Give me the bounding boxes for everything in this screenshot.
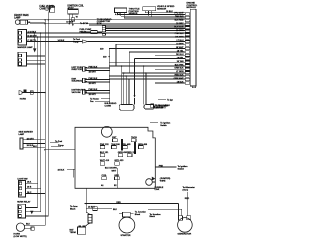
svg-text:18 B: 18 B	[27, 187, 32, 189]
svg-text:RED: RED	[185, 198, 190, 200]
svg-text:18 BLK: 18 BLK	[177, 82, 184, 84]
svg-text:439: 439	[100, 48, 104, 50]
svg-text:LT BLU: LT BLU	[177, 40, 184, 42]
svg-text:MARKER LAMP: MARKER LAMP	[18, 46, 34, 49]
svg-text:To ECM: To ECM	[80, 23, 88, 25]
svg-text:To Fuel: To Fuel	[73, 39, 80, 41]
svg-text:To Heater: To Heater	[90, 97, 99, 100]
svg-text:RED: RED	[116, 202, 121, 204]
svg-text:Pump: Pump	[73, 42, 79, 44]
svg-text:BLK: BLK	[113, 209, 118, 211]
svg-text:18 GRY: 18 GRY	[89, 72, 97, 74]
svg-text:14 BLK: 14 BLK	[58, 40, 65, 42]
svg-text:BLK: BLK	[33, 146, 38, 148]
svg-text:LINK: LINK	[155, 189, 160, 191]
svg-text:LAMP: LAMP	[14, 17, 21, 20]
svg-text:(Gen): (Gen)	[183, 190, 189, 192]
svg-text:PNK BLK: PNK BLK	[175, 33, 184, 35]
svg-text:SOLENOID: SOLENOID	[72, 81, 83, 83]
svg-text:18 GRY: 18 GRY	[27, 138, 35, 140]
svg-text:B 18 GRY: B 18 GRY	[28, 35, 38, 37]
svg-text:PNK BLK: PNK BLK	[89, 78, 98, 80]
svg-text:HORN: HORN	[20, 98, 27, 100]
svg-text:18 GRY: 18 GRY	[89, 83, 97, 85]
svg-text:PNK BLK: PNK BLK	[89, 67, 98, 69]
svg-text:W: W	[76, 17, 78, 19]
svg-text:ORN BLK: ORN BLK	[174, 68, 184, 70]
svg-text:TAN BLK: TAN BLK	[175, 15, 184, 18]
svg-text:VACUUM: VACUUM	[72, 91, 81, 94]
svg-text:18 BLK: 18 BLK	[166, 11, 173, 13]
svg-text:LAMP: LAMP	[19, 133, 25, 136]
svg-text:DK GRN: DK GRN	[175, 37, 184, 39]
svg-text:Switch: Switch	[178, 167, 185, 170]
svg-text:439: 439	[103, 56, 107, 58]
svg-text:DK BLU: DK BLU	[176, 54, 184, 56]
svg-text:Block: Block	[150, 216, 156, 218]
svg-text:BLK WHT: BLK WHT	[174, 26, 184, 28]
svg-text:STARTER: STARTER	[121, 234, 131, 237]
svg-text:PPL WHT: PPL WHT	[174, 13, 184, 15]
svg-text:HORN RELAY: HORN RELAY	[17, 201, 31, 204]
svg-text:ECM: ECM	[97, 23, 102, 25]
svg-text:Switch: Switch	[160, 124, 167, 127]
svg-text:PNK BLK: PNK BLK	[89, 89, 98, 91]
svg-text:SENSOR: SENSOR	[157, 8, 167, 10]
svg-text:B2: B2	[114, 185, 117, 187]
svg-text:CONN: CONN	[105, 105, 112, 107]
svg-text:A1: A1	[101, 184, 104, 187]
svg-text:A 18 BLK: A 18 BLK	[28, 30, 37, 33]
svg-text:(LOW NOTE): (LOW NOTE)	[14, 236, 27, 238]
svg-text:C 18 PPL: C 18 PPL	[28, 40, 38, 42]
svg-text:Fan: Fan	[90, 101, 94, 103]
svg-text:PNK: PNK	[159, 165, 164, 167]
svg-text:18 BRN: 18 BRN	[176, 44, 184, 46]
svg-text:TERM: TERM	[70, 232, 76, 234]
svg-text:MODULE: MODULE	[187, 7, 197, 9]
svg-text:18 GRY: 18 GRY	[89, 94, 97, 96]
svg-text:INJECTOR: INJECTOR	[72, 69, 83, 71]
svg-text:18 C: 18 C	[27, 192, 32, 194]
svg-text:BLK: BLK	[26, 224, 31, 226]
svg-text:WIRE: WIRE	[160, 181, 166, 183]
svg-text:GENERATOR: GENERATOR	[178, 232, 192, 235]
svg-text:18 A: 18 A	[27, 181, 32, 184]
svg-text:BLK DKGRN: BLK DKGRN	[105, 168, 117, 170]
svg-text:Block: Block	[135, 214, 141, 216]
svg-text:18 BLK: 18 BLK	[58, 169, 65, 171]
svg-text:18 ORN: 18 ORN	[176, 30, 184, 32]
svg-text:Block: Block	[70, 208, 76, 210]
svg-text:BLK RED: BLK RED	[175, 19, 184, 21]
svg-text:To Ign: To Ign	[167, 100, 174, 102]
svg-text:Pump: Pump	[58, 145, 64, 147]
svg-text:(ENG BAY): (ENG BAY)	[155, 106, 166, 109]
svg-text:WHT: WHT	[112, 171, 117, 173]
svg-text:18 GRY: 18 GRY	[176, 23, 184, 25]
